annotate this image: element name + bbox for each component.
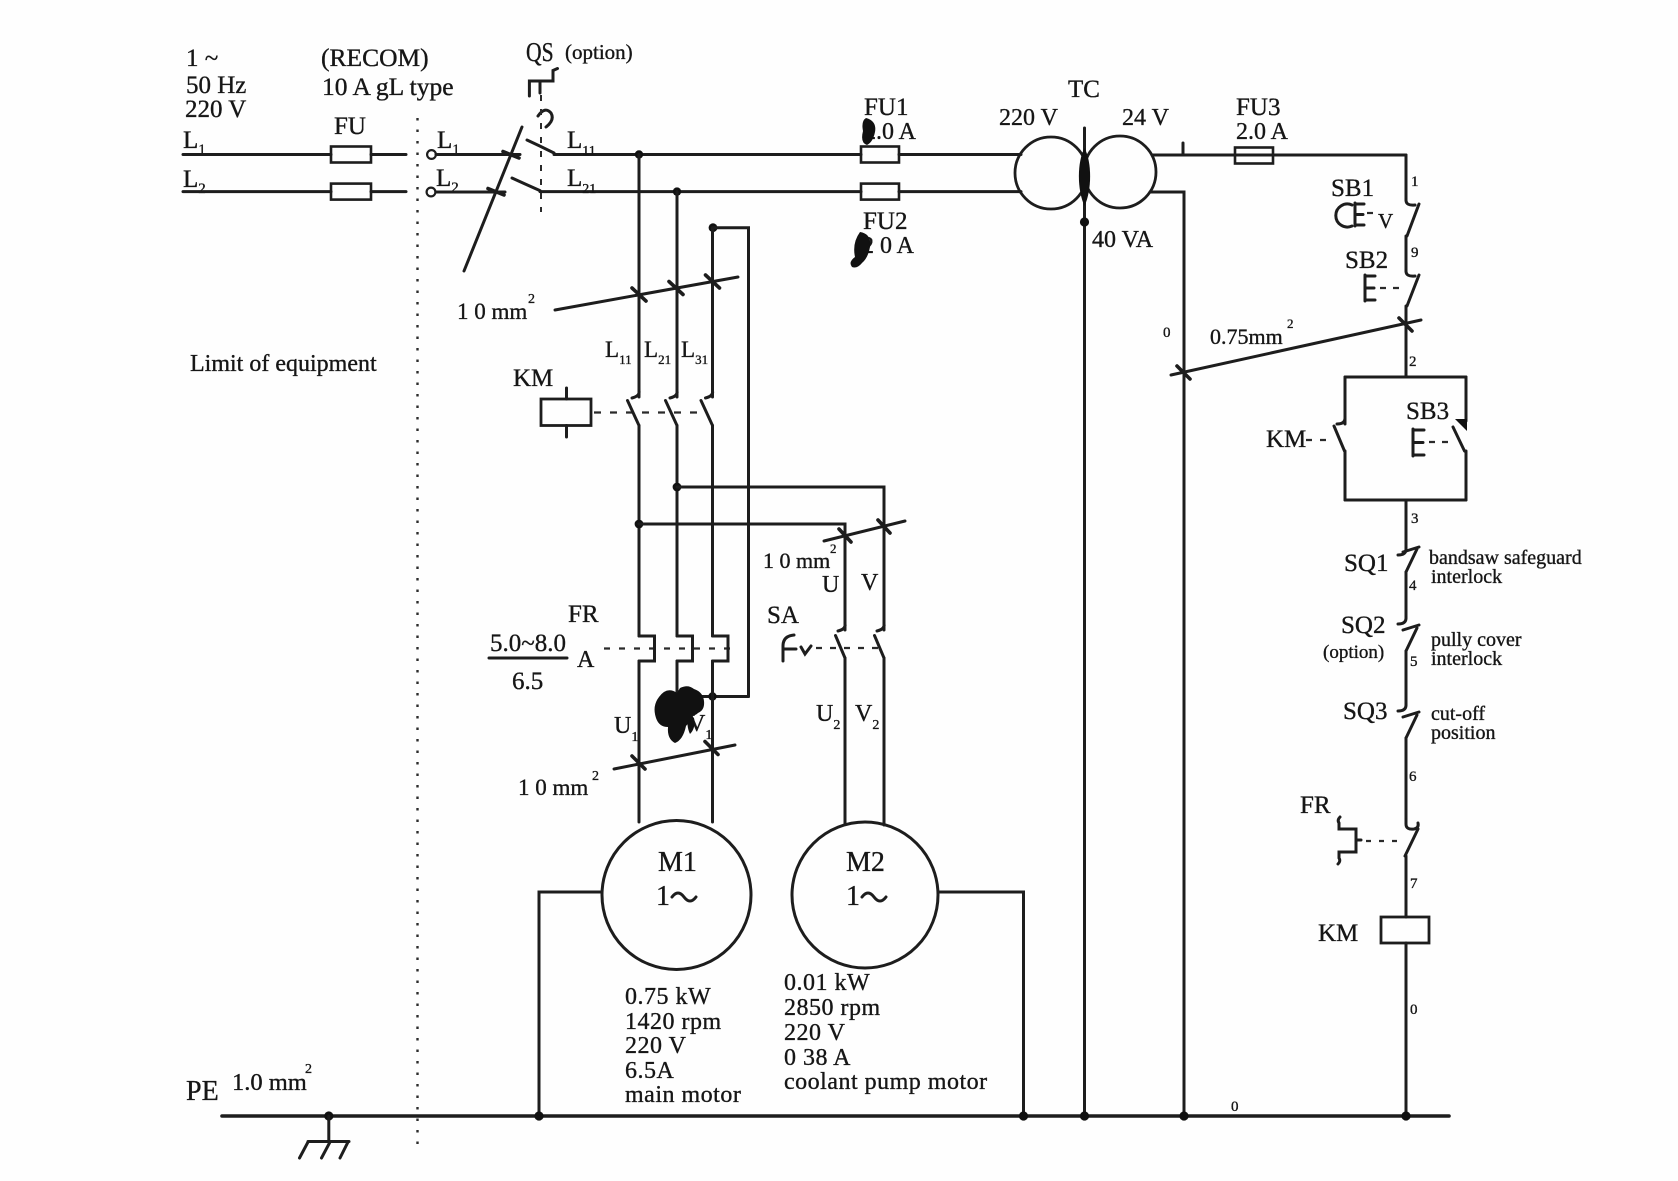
ground symbol <box>300 1116 350 1158</box>
svg-text:FU: FU <box>334 113 366 140</box>
svg-text:1 0 mm: 1 0 mm <box>763 548 830 573</box>
svg-text:1420 rpm: 1420 rpm <box>625 1009 722 1035</box>
junction dot TC screen earth <box>1080 1111 1089 1120</box>
pushbutton SB2 NC contact <box>1406 271 1419 306</box>
fuse FU2 body <box>861 184 899 200</box>
fuse FU1 label 2.0 A <box>864 94 917 145</box>
motor M1 nameplate text <box>625 984 741 1108</box>
cable tick control wire <box>1399 318 1412 331</box>
svg-text:2: 2 <box>1287 316 1294 331</box>
svg-text:6.5A: 6.5A <box>625 1058 675 1084</box>
supply source label 1~ 50Hz 220V <box>185 45 246 123</box>
svg-text:1: 1 <box>846 881 860 912</box>
wire tap to U <box>639 524 845 630</box>
svg-text:FR: FR <box>568 601 599 628</box>
wire 24V secondary top <box>1152 154 1406 157</box>
svg-text:SQ1: SQ1 <box>1344 550 1388 577</box>
pushbutton SB2 operator <box>1365 275 1399 301</box>
wire U2 to motor <box>844 658 847 824</box>
contactor KM main contact 1 <box>628 391 640 426</box>
limit switch SQ3 NC contact <box>1398 705 1419 820</box>
junction dot tap U <box>635 520 644 529</box>
wire M1 earth <box>539 892 602 1116</box>
junction dot M1 earth <box>534 1111 543 1120</box>
fuse FU3 body <box>1235 148 1273 164</box>
switch SA contact pole V <box>875 624 885 658</box>
wire phase3 below KM <box>711 426 714 637</box>
svg-text:220 V: 220 V <box>185 96 246 123</box>
cable marker 1.0 mm2 (M1) diagonal <box>614 745 735 769</box>
svg-text:SQ2: SQ2 <box>1341 612 1385 639</box>
svg-text:V: V <box>861 570 879 596</box>
svg-text:220 V: 220 V <box>784 1020 846 1046</box>
junction dot L21 <box>673 187 681 195</box>
wire U1 to motor <box>638 661 641 822</box>
cable marker 1.0 mm2 (top) diagonal <box>555 277 738 310</box>
svg-text:(RECOM): (RECOM) <box>321 43 429 72</box>
wire L21 vertical drop <box>676 192 679 397</box>
svg-text:V: V <box>1378 209 1393 233</box>
svg-text:2: 2 <box>830 541 837 556</box>
junction dot bypass <box>708 692 716 700</box>
svg-text:220 V: 220 V <box>999 105 1059 131</box>
svg-text:2: 2 <box>528 292 535 307</box>
fuse FU2 label 2.0 A <box>862 208 915 259</box>
junction dot ground <box>324 1111 333 1120</box>
svg-text:interlock: interlock <box>1431 648 1502 670</box>
wire phase2 below KM <box>676 426 679 637</box>
cable tick V <box>878 520 890 533</box>
svg-text:40 VA: 40 VA <box>1092 227 1154 253</box>
svg-text:(option): (option) <box>565 40 633 64</box>
wire L1 incoming <box>183 153 331 156</box>
cable tick U <box>839 529 851 542</box>
fuse FU1 body <box>861 147 899 163</box>
svg-text:4: 4 <box>1409 578 1417 594</box>
wire L31 vertical drop <box>711 228 714 397</box>
svg-text:2: 2 <box>305 1062 312 1077</box>
limit switch SQ1 NC contact <box>1398 547 1419 618</box>
contactor KM aux linkage dashes <box>1306 439 1329 441</box>
svg-text:SQ3: SQ3 <box>1343 698 1387 725</box>
svg-text:1 0 mm: 1 0 mm <box>518 775 588 800</box>
wire V2 to motor <box>883 658 886 825</box>
wire control line top <box>1405 155 1408 200</box>
parallel branch box top <box>1345 376 1466 379</box>
svg-text:FR: FR <box>1300 792 1331 819</box>
contactor KM coil <box>541 388 591 437</box>
wire V1 to motor <box>711 661 714 822</box>
switch QS label (option) <box>526 38 633 68</box>
wire L2 to boundary <box>371 190 406 193</box>
svg-text:0.75 kW: 0.75 kW <box>625 984 711 1010</box>
svg-text:U: U <box>822 572 839 598</box>
junction dot L31 tap <box>709 223 718 232</box>
svg-text:2: 2 <box>1409 354 1417 370</box>
cable tick U1 <box>632 756 645 769</box>
wire L2 terminal to QS <box>436 191 505 194</box>
cable tick L31 <box>706 275 720 288</box>
fuse FU3 label 2.0 A <box>1236 94 1289 145</box>
svg-text:0: 0 <box>1231 1099 1239 1115</box>
pushbutton SB1 mushroom operator <box>1336 203 1373 227</box>
junction dot tap V <box>673 483 682 492</box>
svg-text:PE: PE <box>186 1076 219 1107</box>
wire control 1-9 <box>1405 236 1408 271</box>
wire FU1 to transformer <box>899 153 1021 156</box>
motor M1 circle <box>602 821 751 970</box>
svg-text:5: 5 <box>1410 654 1418 670</box>
pushbutton SB1 NC contact <box>1406 200 1419 236</box>
switch QS cross tick pole 1 <box>503 152 519 159</box>
svg-text:QS: QS <box>526 38 554 68</box>
wire L21 horizontal <box>540 190 861 193</box>
wire L1 terminal to QS <box>436 153 520 156</box>
svg-text:1: 1 <box>656 881 670 912</box>
svg-text:(option): (option) <box>1323 642 1384 663</box>
wire L11 horizontal <box>554 153 861 156</box>
contactor KM coil (control) <box>1381 917 1429 943</box>
svg-text:Limit of equipment: Limit of equipment <box>190 351 377 377</box>
switch QS contact blade pole 1 <box>527 140 554 153</box>
relay FR heater 3 <box>713 636 729 661</box>
svg-text:2850 rpm: 2850 rpm <box>784 995 881 1021</box>
terminal tick secondary <box>1182 143 1185 155</box>
svg-text:5.0~8.0: 5.0~8.0 <box>490 630 566 657</box>
svg-text:main motor: main motor <box>625 1082 741 1108</box>
svg-text:1: 1 <box>1411 174 1419 190</box>
pushbutton SB3 operator <box>1413 429 1449 456</box>
ink blob over V1 <box>655 686 705 743</box>
relay FR actuator bracket <box>1338 817 1361 864</box>
svg-text:220 V: 220 V <box>625 1033 687 1059</box>
cable tick L21 <box>669 282 683 295</box>
switch QS mechanical diagonal <box>464 127 522 271</box>
annotation bandsaw safeguard interlock <box>1429 547 1582 588</box>
junction dot TC screen <box>1080 217 1089 226</box>
svg-text:0: 0 <box>1163 325 1171 341</box>
fuse FU pole 2 <box>331 184 371 200</box>
ink blob over FU2 rating <box>851 232 871 268</box>
svg-text:KM: KM <box>513 365 553 392</box>
contactor KM main contact 3 <box>701 391 713 426</box>
svg-text:6.5: 6.5 <box>512 668 543 695</box>
transformer TC core ink mark <box>1079 148 1090 206</box>
svg-text:1 0 mm: 1 0 mm <box>457 299 527 324</box>
svg-text:FU2: FU2 <box>863 208 907 235</box>
cable tick L11 <box>632 288 646 301</box>
svg-text:KM: KM <box>1266 426 1306 453</box>
limit of equipment boundary (dotted) <box>416 118 418 1148</box>
fuse FU pole 1 <box>331 147 371 163</box>
wire control 2-3 <box>1405 500 1408 549</box>
svg-text:2.0 A: 2.0 A <box>1236 119 1289 145</box>
svg-text:interlock: interlock <box>1431 566 1502 588</box>
svg-text:6: 6 <box>1409 769 1417 785</box>
svg-text:SB1: SB1 <box>1331 175 1374 202</box>
junction dot control line bottom <box>1401 1111 1410 1120</box>
junction dot M2 earth <box>1019 1111 1028 1120</box>
terminal L1 (circle) <box>427 150 436 159</box>
cable tick V1 <box>705 742 718 755</box>
junction dot return wire <box>1179 1111 1188 1120</box>
svg-text:0: 0 <box>1410 1002 1418 1018</box>
fuse FU label (RECOM) 10 A gL type <box>321 43 454 140</box>
switch SA actuator arrow v <box>801 646 811 654</box>
transformer TC screen line <box>1083 128 1086 1116</box>
terminal L2 (circle) <box>427 188 436 197</box>
relay FR linkage (dashed) <box>604 647 733 649</box>
svg-text:1 ~: 1 ~ <box>186 45 218 72</box>
switch QS handle symbol <box>529 69 557 97</box>
svg-text:9: 9 <box>1411 245 1419 261</box>
wire secondary return <box>1150 192 1184 1116</box>
wire M2 earth <box>938 892 1024 1116</box>
motor M2 nameplate text <box>784 970 988 1095</box>
svg-text:KM: KM <box>1318 920 1358 947</box>
svg-text:1.0 mm: 1.0 mm <box>232 1069 307 1096</box>
wire bypass horizontal <box>677 695 749 698</box>
svg-text:3: 3 <box>1411 511 1419 527</box>
contactor KM main contact 2 <box>666 391 678 426</box>
annotation pully cover interlock <box>1431 629 1522 670</box>
relay FR heater 2 <box>677 636 693 661</box>
motor M2 circle <box>792 822 938 968</box>
svg-text:SB3: SB3 <box>1406 398 1449 425</box>
svg-text:coolant pump motor: coolant pump motor <box>784 1069 988 1095</box>
wire tap to V <box>677 487 884 630</box>
svg-text:0.01 kW: 0.01 kW <box>784 970 870 996</box>
pushbutton SB3 NO contact <box>1453 377 1467 500</box>
wire L31 jog to bypass <box>713 228 749 697</box>
svg-text:A: A <box>577 647 595 673</box>
relay FR linkage dashes <box>1366 840 1401 842</box>
wire phase1 below KM <box>638 426 641 637</box>
wire control 9-2 <box>1405 306 1408 377</box>
wire phase2 to bypass junction <box>676 661 679 697</box>
switch SA contact pole U <box>836 624 846 658</box>
junction dot L11 <box>635 150 643 158</box>
contactor KM linkage (dashed) <box>594 411 707 413</box>
switch QS spring curve <box>538 110 552 127</box>
svg-text:M2: M2 <box>846 847 885 878</box>
cable tick return wire <box>1177 366 1190 379</box>
contactor KM aux NO contact <box>1334 377 1345 500</box>
wire FU2 to transformer <box>899 190 1021 193</box>
wire L11 vertical drop <box>638 155 641 398</box>
ink blob over FU1 rating <box>862 118 875 145</box>
svg-text:M1: M1 <box>658 847 697 878</box>
svg-text:0 38 A: 0 38 A <box>784 1045 851 1071</box>
svg-text:7: 7 <box>1410 876 1418 892</box>
svg-text:TC: TC <box>1068 76 1100 103</box>
transformer TC primary winding <box>1015 137 1087 209</box>
svg-text:50 Hz: 50 Hz <box>186 72 246 99</box>
wire PE bottom bus <box>222 1114 1449 1118</box>
svg-text:SA: SA <box>767 602 799 629</box>
cable marker 1.0 mm2 (pump feed) diagonal <box>824 521 905 541</box>
wire coil to 0 <box>1405 943 1408 1116</box>
annotation cut-off position <box>1431 703 1495 744</box>
cable marker 0.75mm2 diagonal <box>1171 320 1421 375</box>
svg-text:2: 2 <box>592 769 599 784</box>
parallel branch box bottom <box>1345 499 1466 502</box>
switch SA linkage (dashed) <box>816 647 880 649</box>
switch QS linkage (dashed) <box>540 95 542 212</box>
switch QS cross tick pole 2 <box>488 189 504 196</box>
svg-text:FU3: FU3 <box>1236 94 1280 121</box>
switch QS contact blade pole 2 <box>512 178 540 191</box>
svg-text:24 V: 24 V <box>1122 105 1170 131</box>
svg-text:0.75mm: 0.75mm <box>1210 324 1283 349</box>
svg-text:FU1: FU1 <box>864 94 908 121</box>
wire L2 incoming <box>183 190 331 193</box>
svg-text:position: position <box>1431 722 1495 744</box>
svg-text:10 A gL type: 10 A gL type <box>322 72 454 101</box>
svg-text:SB2: SB2 <box>1345 247 1388 274</box>
transformer TC secondary winding <box>1084 136 1156 208</box>
relay FR NC contact <box>1405 820 1418 917</box>
relay FR heater 1 <box>639 636 655 661</box>
relay FR setting 5.0~8.0 / 6.5 A <box>489 630 595 695</box>
switch SA actuator symbol <box>783 635 796 661</box>
limit switch SQ2 NC contact <box>1398 618 1419 705</box>
wire L1 to boundary <box>371 153 406 156</box>
